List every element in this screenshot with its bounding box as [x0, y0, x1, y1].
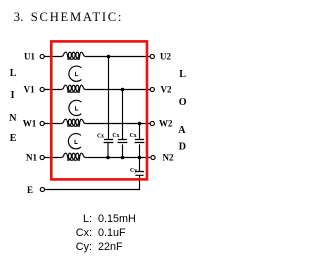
svg-text:SCHEMATIC:: SCHEMATIC:	[31, 10, 123, 24]
svg-text:O: O	[179, 97, 187, 108]
wire inductor to U2	[85, 56, 150, 58]
wire N1 to inductor	[44, 157, 61, 159]
terminal W2	[150, 121, 154, 125]
wire Cx2 column upper	[122, 90, 124, 158]
terminal E	[40, 187, 44, 191]
svg-text:3.: 3.	[14, 10, 23, 24]
title SCHEMATIC	[14, 10, 123, 24]
wire inductor to N2	[85, 157, 150, 159]
wire inductor to V2	[85, 89, 150, 91]
capacitor Cx3	[135, 140, 145, 143]
junction node U/Cx1	[107, 55, 111, 59]
filter enclosure box (red)	[51, 41, 147, 179]
capacitor Cy	[135, 172, 144, 176]
svg-text:W2: W2	[159, 118, 173, 128]
node label LOAD (vertical)	[178, 69, 187, 153]
terminal U1	[40, 54, 44, 58]
svg-text:N2: N2	[163, 153, 174, 163]
inductor L phase W	[62, 119, 86, 126]
node label LINE (vertical)	[9, 68, 17, 144]
core symbol L2 (circle with L)	[69, 100, 82, 115]
wire Cy to E line	[45, 175, 140, 189]
svg-text:L: L	[10, 68, 17, 79]
svg-text:Cy:: Cy:	[76, 241, 92, 253]
svg-text:D: D	[179, 142, 186, 153]
svg-text:0.1uF: 0.1uF	[98, 227, 126, 239]
terminal U2	[150, 54, 154, 58]
wire Cx1 column upper	[107, 57, 110, 158]
svg-text:22nF: 22nF	[98, 241, 123, 253]
wire V1 to inductor	[44, 89, 61, 91]
svg-text:L: L	[179, 69, 186, 80]
inductor L phase V	[62, 85, 86, 92]
svg-text:I: I	[11, 90, 15, 101]
terminal W1	[40, 121, 44, 125]
svg-text:U1: U1	[24, 51, 35, 61]
svg-text:V2: V2	[161, 84, 172, 94]
junction node W/Cx3	[138, 122, 142, 126]
svg-text:E: E	[27, 185, 33, 195]
svg-text:A: A	[178, 125, 186, 136]
capacitor Cx1	[104, 140, 114, 145]
svg-text:Cx:: Cx:	[76, 227, 92, 239]
wire N to Cy	[139, 158, 141, 172]
inductor L phase N	[62, 153, 86, 160]
wire U1 to inductor	[44, 56, 61, 58]
junction node N/Cy	[138, 156, 142, 160]
terminal V1	[40, 87, 44, 91]
svg-text:V1: V1	[24, 84, 35, 94]
svg-text:U2: U2	[160, 51, 171, 61]
svg-text:Cx: Cx	[112, 133, 119, 139]
svg-text:L:: L:	[83, 213, 92, 225]
junction node V/Cx2	[121, 88, 125, 92]
terminal N2	[151, 155, 155, 159]
capacitor Cx2	[118, 140, 128, 143]
svg-text:N1: N1	[26, 153, 37, 163]
wire Cx3 column upper	[139, 124, 141, 158]
terminal N1	[40, 155, 44, 159]
svg-text:Cy: Cy	[130, 168, 137, 174]
svg-text:Cx: Cx	[97, 133, 104, 139]
wire W1 to inductor	[44, 123, 61, 125]
svg-text:E: E	[10, 133, 17, 144]
value list L / Cx / Cy	[76, 213, 136, 253]
inductor L phase U	[62, 52, 86, 59]
svg-text:N: N	[9, 113, 17, 124]
svg-text:0.15mH: 0.15mH	[98, 213, 136, 225]
svg-text:Cx: Cx	[130, 133, 137, 139]
junction node N/Cx2	[121, 156, 125, 160]
core symbol L1 (circle with L)	[69, 66, 82, 81]
junction node N/Cx1	[106, 156, 110, 160]
terminal V2	[150, 87, 154, 91]
svg-text:W1: W1	[23, 118, 37, 128]
wire inductor to W2	[85, 123, 150, 125]
core symbol L3 (circle with L)	[68, 134, 81, 149]
